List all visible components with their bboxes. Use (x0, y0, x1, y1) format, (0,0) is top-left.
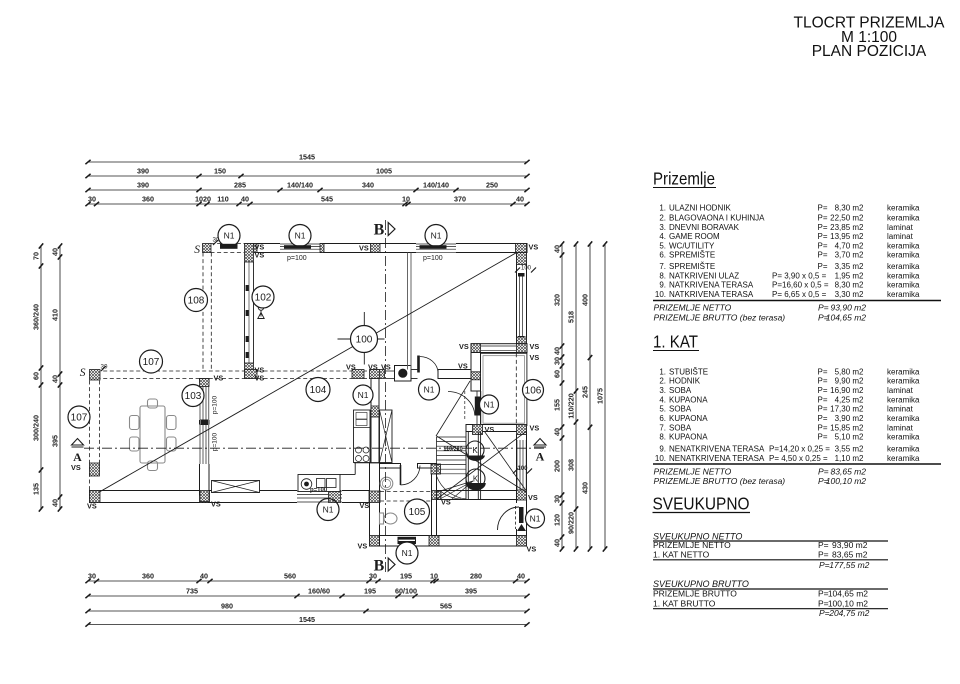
stair wall bottom (437, 491, 517, 500)
svg-text:17,30 m2: 17,30 m2 (830, 405, 864, 414)
position circle 108 (185, 289, 208, 312)
svg-text:WC/UTILITY: WC/UTILITY (669, 241, 715, 250)
dining table (140, 406, 165, 463)
svg-text:S: S (194, 244, 200, 256)
main diagonal line across plan (99, 252, 518, 492)
svg-text:P= 4,50 x 0,25 =: P= 4,50 x 0,25 = (769, 454, 828, 463)
right vertical dimension line D 1075 (604, 244, 606, 549)
svg-text:100,10 m2: 100,10 m2 (826, 476, 866, 486)
svg-text:104,65 m2: 104,65 m2 (828, 589, 868, 599)
svg-text:9.: 9. (659, 281, 666, 290)
svg-text:22,50 m2: 22,50 m2 (830, 213, 864, 222)
svg-text:360/240: 360/240 (32, 304, 41, 330)
svg-text:VS: VS (358, 542, 368, 551)
svg-text:SOBA: SOBA (669, 405, 692, 414)
svg-text:K: K (472, 446, 478, 455)
svg-text:83,65 m2: 83,65 m2 (831, 466, 867, 476)
svg-text:410: 410 (51, 309, 60, 321)
svg-text:40: 40 (553, 539, 562, 547)
svg-text:30: 30 (553, 495, 562, 503)
svg-text:VS: VS (459, 342, 469, 351)
position circle 106 (523, 380, 544, 401)
svg-text:p=100: p=100 (287, 255, 307, 262)
left inner vertical dimension line (59, 246, 61, 509)
dark window sills on top wall (220, 244, 238, 249)
svg-text:VS: VS (530, 342, 540, 351)
door in middle wall (411, 369, 418, 371)
wall: terrace top horizontal (466, 425, 527, 432)
svg-text:keramika: keramika (887, 251, 920, 260)
svg-text:90/220: 90/220 (567, 512, 576, 534)
svg-text:9,90 m2: 9,90 m2 (835, 377, 864, 386)
position circle 102 (252, 286, 274, 308)
svg-text:40: 40 (516, 194, 524, 203)
svg-text:VS: VS (441, 498, 451, 507)
svg-text:Prizemlje: Prizemlje (653, 169, 715, 189)
svg-text:NENATKRIVENA TERASA: NENATKRIVENA TERASA (669, 454, 765, 463)
svg-text:keramika: keramika (887, 395, 920, 404)
svg-text:300/240: 300/240 (32, 415, 41, 441)
svg-text:40: 40 (553, 245, 562, 253)
svg-text:VS: VS (458, 362, 468, 371)
svg-text:308: 308 (567, 459, 576, 471)
svg-text:285: 285 (234, 180, 246, 189)
svg-text:60: 60 (553, 370, 562, 378)
svg-text:VS: VS (87, 502, 97, 511)
svg-text:5.: 5. (659, 241, 666, 250)
svg-text:p=100: p=100 (212, 395, 219, 414)
svg-text:NATKRIVENI ULAZ: NATKRIVENI ULAZ (669, 271, 739, 280)
svg-text:40: 40 (553, 428, 562, 436)
svg-text:102: 102 (255, 293, 272, 304)
svg-text:ULAZNI HODNIK: ULAZNI HODNIK (669, 204, 731, 213)
svg-text:P=14,20 x 0,25 =: P=14,20 x 0,25 = (769, 445, 830, 454)
wall: bottom exterior lower section (380, 536, 527, 547)
interior thin partition vertical (407, 253, 409, 370)
svg-text:7.: 7. (659, 423, 666, 432)
svg-text:N1: N1 (431, 231, 442, 241)
position circle 103 (182, 385, 204, 407)
svg-text:1.: 1. (659, 204, 666, 213)
svg-text:93,90 m2: 93,90 m2 (831, 303, 867, 313)
svg-text:keramika: keramika (887, 445, 920, 454)
svg-text:VS: VS (529, 243, 539, 252)
svg-text:980: 980 (221, 601, 233, 610)
svg-text:laminat: laminat (887, 386, 914, 395)
svg-text:SVEUKUPNO: SVEUKUPNO (653, 494, 750, 514)
svg-text:40: 40 (200, 571, 208, 580)
svg-text:S: S (80, 367, 86, 379)
svg-text:keramika: keramika (887, 414, 920, 423)
svg-text:VS: VS (528, 493, 538, 502)
svg-text:104: 104 (310, 385, 327, 396)
position circle 107 (140, 350, 163, 373)
svg-text:P=: P= (819, 608, 830, 618)
svg-text:VS: VS (368, 363, 378, 372)
svg-text:1.: 1. (659, 367, 666, 376)
svg-text:VS: VS (530, 353, 540, 362)
right vertical dimension line C (589, 244, 591, 549)
svg-text:4.: 4. (659, 232, 666, 241)
svg-text:3,90 m2: 3,90 m2 (835, 414, 864, 423)
svg-text:70: 70 (32, 252, 41, 260)
svg-text:110/220: 110/220 (567, 393, 576, 419)
wall: right horizontal (room106 top) (471, 344, 527, 353)
svg-text:135: 135 (32, 483, 41, 495)
svg-text:16,90 m2: 16,90 m2 (830, 386, 864, 395)
svg-text:30: 30 (553, 357, 562, 365)
svg-text:BLAGOVAONA I KUHINJA: BLAGOVAONA I KUHINJA (669, 213, 765, 222)
bottom dimension line 4 1545 (88, 624, 527, 626)
svg-text:VS: VS (527, 545, 537, 554)
svg-text:PRIZEMLJE NETTO: PRIZEMLJE NETTO (653, 540, 731, 550)
wall: left exterior glazed (245, 244, 254, 263)
svg-text:P=: P= (818, 423, 828, 432)
svg-text:N1: N1 (424, 385, 435, 395)
stair dark half discs (467, 456, 486, 461)
svg-text:keramika: keramika (887, 204, 920, 213)
svg-text:VS: VS (381, 363, 391, 372)
svg-text:8.: 8. (659, 433, 666, 442)
svg-text:SPREMIŠTE: SPREMIŠTE (669, 251, 715, 260)
svg-text:SOBA: SOBA (669, 386, 692, 395)
svg-text:100,10 m2: 100,10 m2 (828, 598, 868, 608)
middle wall segments and columns (245, 370, 258, 379)
svg-text:keramika: keramika (887, 290, 920, 299)
svg-text:1,10 m2: 1,10 m2 (835, 454, 864, 463)
svg-text:KUPAONA: KUPAONA (669, 414, 708, 423)
wall: right exterior lower (516, 435, 518, 504)
left outer vertical dimension line (40, 246, 42, 509)
wall: right exterior upper (517, 253, 527, 345)
svg-text:VS: VS (255, 374, 265, 383)
bottom dimension line 1 (88, 580, 527, 582)
svg-text:P=: P= (818, 395, 828, 404)
svg-text:108: 108 (188, 296, 205, 307)
wall: covered entry dashed edge vertical (202, 253, 204, 370)
svg-text:p=100: p=100 (423, 255, 443, 262)
svg-text:1. KAT NETTO: 1. KAT NETTO (653, 550, 710, 560)
svg-text:2.: 2. (659, 377, 666, 386)
svg-text:HODNIK: HODNIK (669, 377, 701, 386)
svg-text:40: 40 (51, 499, 60, 507)
svg-text:P=: P= (818, 386, 828, 395)
svg-text:105: 105 (409, 507, 426, 518)
svg-text:N1: N1 (295, 231, 306, 241)
svg-text:PRIZEMLJE BRUTTO (bez terasa: PRIZEMLJE BRUTTO (bez terasa) (654, 476, 786, 486)
svg-text:60: 60 (32, 372, 41, 380)
toilet room105 (380, 513, 384, 524)
svg-text:VS: VS (211, 500, 221, 509)
svg-text:30: 30 (88, 194, 96, 203)
svg-text:PRIZEMLJE NETTO: PRIZEMLJE NETTO (654, 466, 732, 476)
svg-text:NATKRIVENA TERASA: NATKRIVENA TERASA (669, 290, 754, 299)
svg-text:KUPAONA: KUPAONA (669, 433, 708, 442)
svg-text:A: A (73, 450, 82, 464)
svg-text:P= 3,90 x 0,5 =: P= 3,90 x 0,5 = (772, 271, 827, 280)
svg-text:5,80 m2: 5,80 m2 (835, 367, 864, 376)
svg-text:VS: VS (359, 244, 369, 253)
svg-text:3.: 3. (659, 223, 666, 232)
K circles (466, 441, 484, 459)
svg-text:195: 195 (400, 571, 412, 580)
svg-text:3,30 m2: 3,30 m2 (835, 290, 864, 299)
svg-text:7.: 7. (659, 262, 666, 271)
svg-text:140/140: 140/140 (423, 180, 449, 189)
svg-text:8,30 m2: 8,30 m2 (835, 204, 864, 213)
column mid left terrace (90, 463, 100, 476)
svg-text:keramika: keramika (887, 433, 920, 442)
sink room105 (380, 477, 393, 490)
svg-text:395: 395 (51, 435, 60, 447)
svg-text:735: 735 (186, 586, 198, 595)
svg-text:545: 545 (321, 194, 333, 203)
svg-text:laminat: laminat (887, 232, 914, 241)
fridge with cross (380, 410, 393, 463)
position circle 107 left (68, 406, 90, 428)
svg-text:200: 200 (553, 460, 562, 472)
svg-text:P=16,60 x 0,5 =: P=16,60 x 0,5 = (772, 281, 829, 290)
svg-text:A: A (536, 450, 545, 464)
svg-text:150: 150 (214, 166, 226, 175)
column S top (203, 244, 212, 253)
svg-text:P=: P= (818, 204, 828, 213)
svg-text:10: 10 (402, 194, 410, 203)
svg-text:N1: N1 (530, 514, 541, 524)
svg-text:93,90 m2: 93,90 m2 (832, 540, 868, 550)
svg-text:140/140: 140/140 (287, 180, 313, 189)
svg-text:340: 340 (362, 180, 374, 189)
svg-text:laminat: laminat (887, 223, 914, 232)
svg-text:120: 120 (553, 514, 562, 526)
wall projection dashed in room105 (380, 491, 432, 493)
svg-text:SPREMIŠTE: SPREMIŠTE (669, 262, 715, 271)
svg-text:400: 400 (581, 294, 590, 306)
top dimension line 390/285/140/340/140/250 (88, 189, 527, 191)
svg-text:STUBIŠTE: STUBIŠTE (669, 367, 708, 376)
svg-text:370: 370 (454, 194, 466, 203)
svg-text:P=: P= (818, 405, 828, 414)
kitchen unit (354, 410, 371, 463)
svg-text:P=: P= (818, 213, 828, 222)
svg-text:SOBA: SOBA (669, 423, 692, 432)
svg-text:P=: P= (818, 550, 829, 560)
svg-text:1075: 1075 (596, 388, 605, 404)
svg-text:P= 6,65 x 0,5 =: P= 6,65 x 0,5 = (772, 290, 827, 299)
svg-text:360: 360 (142, 571, 154, 580)
svg-text:10.: 10. (655, 454, 666, 463)
svg-text:keramika: keramika (887, 271, 920, 280)
svg-text:K: K (473, 475, 479, 484)
svg-text:VS: VS (214, 374, 224, 383)
svg-text:250: 250 (486, 180, 498, 189)
svg-text:1. KAT: 1. KAT (653, 332, 698, 352)
svg-text:1545: 1545 (299, 152, 315, 161)
svg-text:keramika: keramika (887, 241, 920, 250)
svg-text:83,65 m2: 83,65 m2 (832, 550, 868, 560)
section mark A left (72, 439, 84, 446)
svg-text:40: 40 (241, 194, 249, 203)
svg-text:VS: VS (530, 424, 540, 433)
svg-text:60/100: 60/100 (395, 586, 417, 595)
svg-text:NATKRIVENA TERASA: NATKRIVENA TERASA (669, 281, 754, 290)
svg-text:518: 518 (567, 311, 576, 323)
svg-text:5.: 5. (659, 405, 666, 414)
svg-text:3,70 m2: 3,70 m2 (835, 251, 864, 260)
column at left end of middle wall (90, 370, 101, 381)
svg-text:3.: 3. (659, 386, 666, 395)
middle wall right part (438, 370, 471, 379)
position circle 105 (405, 499, 430, 524)
svg-text:40: 40 (553, 347, 562, 355)
svg-text:195: 195 (364, 586, 376, 595)
svg-text:6.: 6. (659, 414, 666, 423)
wall: middle horizontal dashed (terrace edge) (90, 370, 245, 372)
svg-text:40: 40 (51, 375, 60, 383)
position circle 104 (306, 378, 330, 402)
svg-text:110: 110 (217, 194, 229, 203)
svg-text:107: 107 (71, 413, 88, 424)
svg-text:8,30 m2: 8,30 m2 (835, 281, 864, 290)
svg-text:4,70 m2: 4,70 m2 (835, 241, 864, 250)
room105 east wall (432, 464, 437, 536)
svg-text:VS: VS (346, 363, 356, 372)
svg-text:430: 430 (581, 482, 590, 494)
section line B-B vertical dash-dot (385, 220, 387, 573)
stair cross diagonals (436, 381, 470, 436)
svg-text:390: 390 (137, 180, 149, 189)
svg-text:4.: 4. (659, 395, 666, 404)
svg-text:1545: 1545 (299, 615, 315, 624)
svg-text:1005: 1005 (376, 166, 392, 175)
right vertical dimension line B (575, 244, 577, 549)
svg-text:keramika: keramika (887, 281, 920, 290)
svg-text:10.: 10. (655, 290, 666, 299)
svg-text:PRIZEMLJE BRUTTO: PRIZEMLJE BRUTTO (653, 589, 737, 599)
svg-text:P=: P= (818, 262, 828, 271)
svg-text:320: 320 (553, 294, 562, 306)
svg-text:2.: 2. (659, 213, 666, 222)
svg-text:P=: P= (818, 414, 828, 423)
svg-text:104,65 m2: 104,65 m2 (826, 312, 866, 322)
svg-text:P=: P= (818, 433, 828, 442)
svg-text:106: 106 (525, 386, 542, 397)
svg-text:keramika: keramika (887, 454, 920, 463)
position circle 100 with cross (338, 338, 385, 340)
svg-text:280: 280 (470, 571, 482, 580)
svg-text:NENATKRIVENA TERASA: NENATKRIVENA TERASA (669, 445, 765, 454)
svg-text:SVEUKUPNO BRUTTO: SVEUKUPNO BRUTTO (653, 579, 749, 589)
top dimension line 1545 (88, 161, 527, 163)
svg-text:40: 40 (517, 571, 525, 580)
right vertical dimension line A (561, 244, 563, 549)
svg-text:565: 565 (440, 601, 452, 610)
room106 open terrace outline (481, 353, 527, 425)
svg-text:100: 100 (517, 466, 528, 472)
bottom dimension line 2 (88, 595, 527, 597)
svg-text:P=: P= (818, 303, 829, 313)
svg-text:GAME ROOM: GAME ROOM (669, 232, 720, 241)
columns on top wall (245, 244, 257, 253)
svg-text:3,55 m2: 3,55 m2 (835, 445, 864, 454)
svg-text:P=: P= (818, 377, 828, 386)
svg-text:390: 390 (137, 166, 149, 175)
svg-text:8.: 8. (659, 271, 666, 280)
svg-text:PRIZEMLJE NETTO: PRIZEMLJE NETTO (654, 303, 732, 313)
N1 circles (218, 225, 240, 247)
svg-text:laminat: laminat (887, 423, 914, 432)
svg-text:p=100: p=100 (310, 488, 328, 494)
svg-text:13,95 m2: 13,95 m2 (830, 232, 864, 241)
svg-text:VS: VS (485, 425, 495, 434)
svg-text:155: 155 (553, 399, 562, 411)
svg-text:6.: 6. (659, 251, 666, 260)
svg-text:100: 100 (521, 266, 532, 272)
stairs (436, 437, 438, 491)
wall: lower-section west wall (371, 379, 379, 463)
svg-text:10: 10 (430, 571, 438, 580)
svg-text:P=: P= (818, 241, 828, 250)
shelf with cross (212, 481, 260, 493)
svg-text:103: 103 (185, 391, 202, 402)
svg-text:360: 360 (142, 194, 154, 203)
svg-text:160/60: 160/60 (308, 586, 330, 595)
svg-text:B: B (374, 558, 385, 575)
svg-text:N1: N1 (484, 400, 495, 410)
door in right wall (516, 529, 518, 536)
svg-text:N1: N1 (402, 548, 413, 558)
left terrace dashed vertical edge (89, 381, 91, 493)
svg-text:30: 30 (88, 571, 96, 580)
svg-text:P=: P= (818, 367, 828, 376)
wall: hodnik west wall with windows (200, 379, 210, 496)
section line A-A horizontal dash-dot (84, 447, 546, 449)
svg-text:204,75 m2: 204,75 m2 (828, 608, 869, 618)
door at stair top (475, 397, 481, 416)
svg-text:560: 560 (284, 571, 296, 580)
wall: bottom-left exterior (90, 491, 380, 503)
svg-text:1. KAT BRUTTO: 1. KAT BRUTTO (653, 598, 716, 608)
svg-text:PLAN POZICIJA: PLAN POZICIJA (812, 43, 927, 60)
svg-text:15,85 m2: 15,85 m2 (830, 423, 864, 432)
svg-text:KUPAONA: KUPAONA (669, 395, 708, 404)
svg-text:395: 395 (465, 586, 477, 595)
svg-text:177,55 m2: 177,55 m2 (829, 560, 869, 570)
svg-text:keramika: keramika (887, 213, 920, 222)
concrete column with dot (395, 366, 412, 382)
svg-text:23,85 m2: 23,85 m2 (830, 223, 864, 232)
svg-text:DNEVNI BORAVAK: DNEVNI BORAVAK (669, 223, 740, 232)
svg-text:110/220: 110/220 (443, 447, 462, 453)
room105 north wall + door (380, 464, 401, 469)
svg-text:1,95 m2: 1,95 m2 (835, 271, 864, 280)
svg-text:keramika: keramika (887, 367, 920, 376)
wall: top exterior (211, 243, 246, 245)
svg-text:B: B (374, 222, 385, 239)
svg-text:100: 100 (356, 335, 373, 346)
svg-text:5,10 m2: 5,10 m2 (835, 433, 864, 442)
top dimension line 390/150/1005 (88, 175, 527, 177)
bottom dimension line 3 (88, 610, 527, 612)
top dimension line small segments (88, 203, 527, 205)
svg-text:VS: VS (255, 251, 265, 260)
svg-text:P=: P= (818, 466, 829, 476)
svg-text:P=: P= (818, 540, 829, 550)
svg-text:P=: P= (818, 232, 828, 241)
svg-text:VS: VS (360, 501, 370, 510)
window 60/100 dark sill (398, 537, 417, 544)
svg-text:keramika: keramika (887, 377, 920, 386)
